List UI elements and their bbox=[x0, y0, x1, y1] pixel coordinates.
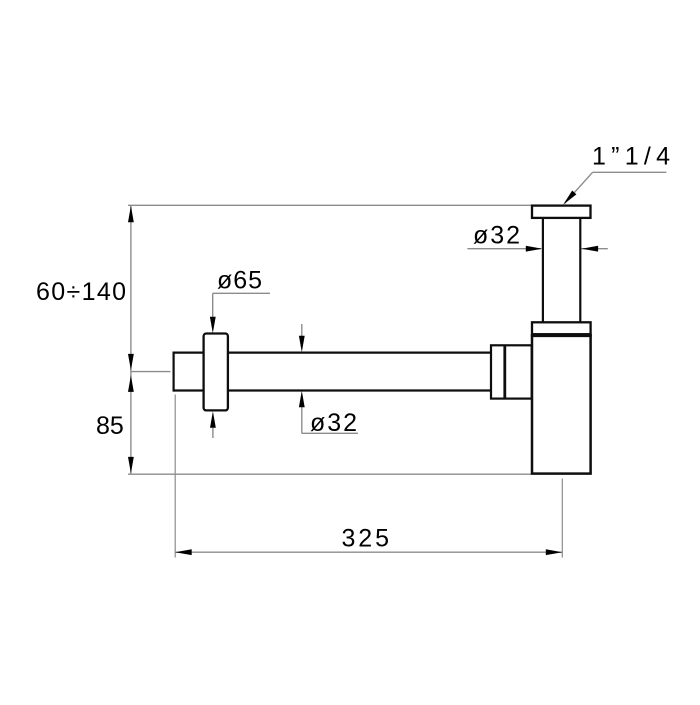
nut divider thick line bbox=[503, 345, 506, 398]
dimension line: top horizontal at tail-piece top level bbox=[128, 204, 532, 206]
dimension line: 325 horizontal bbox=[175, 551, 562, 553]
arrow: 85 top (up) bbox=[128, 375, 134, 392]
svg-text:ø32: ø32 bbox=[310, 409, 357, 437]
svg-text:1”1/4: 1”1/4 bbox=[592, 142, 670, 170]
dimension line: ø32 vertical pipe left segment bbox=[467, 248, 541, 250]
arrow: ø65 top (down) bbox=[210, 317, 216, 334]
leader line: 1"1/4 label bbox=[565, 172, 667, 203]
wire: horizontal pipe top edge bbox=[174, 352, 491, 354]
extension line: bottom of trap body level bbox=[128, 473, 532, 475]
arrow: ø65 bottom (up) bbox=[210, 411, 216, 428]
wire: horizontal pipe left end cap bbox=[173, 352, 175, 392]
trap body collar bbox=[532, 322, 591, 334]
leader stub: ø65 below wall flange bbox=[212, 427, 214, 438]
arrow: 85 bottom (down) bbox=[128, 457, 134, 474]
arrow: 1"1/4 leader (down-left) bbox=[563, 191, 576, 205]
leader line: ø65 label bbox=[213, 293, 270, 317]
arrow: ø32 pipe top (down) bbox=[299, 336, 305, 353]
wire: horizontal pipe bottom edge bbox=[174, 389, 491, 391]
svg-text:60÷140: 60÷140 bbox=[36, 278, 126, 306]
svg-text:ø65: ø65 bbox=[217, 267, 262, 295]
trap body cup bbox=[532, 336, 591, 474]
arrow: ø32 vertical pipe left (right-pointing) bbox=[526, 246, 543, 252]
extension line: 325 right bbox=[561, 479, 563, 558]
arrow: 60÷140 top (up) bbox=[128, 206, 134, 223]
dimension line: ø32 vertical pipe right segment bbox=[582, 248, 608, 250]
svg-text:85: 85 bbox=[96, 412, 124, 440]
arrow: 60÷140 bottom (down) bbox=[128, 354, 134, 371]
trap body collar thick bottom band bbox=[531, 334, 592, 337]
extension line: pipe axis level bbox=[131, 371, 171, 373]
wire: vertical inlet pipe right edge bbox=[579, 218, 581, 322]
extension line: 325 left bbox=[174, 395, 176, 558]
wire: vertical inlet pipe left edge bbox=[542, 218, 544, 322]
arrow: 325 right (right-pointing) bbox=[546, 549, 563, 555]
leader line: ø32 below horizontal pipe bbox=[302, 405, 358, 433]
arrow: ø32 pipe bottom (up) bbox=[299, 391, 305, 408]
svg-text:325: 325 bbox=[342, 525, 390, 553]
compression nut at trap inlet bbox=[491, 345, 532, 398]
wall flange (ø65 rosette) bbox=[204, 334, 228, 411]
arrow: ø32 vertical pipe right (left-pointing) bbox=[582, 246, 599, 252]
top flange (1"1/4 connection) bbox=[532, 206, 591, 218]
dimension line: left vertical (60÷140 and 85) bbox=[130, 205, 132, 473]
svg-text:ø32: ø32 bbox=[473, 221, 520, 249]
leader stub: ø32 above horizontal pipe bbox=[301, 324, 303, 337]
arrow: 325 left (left-pointing) bbox=[175, 549, 192, 555]
